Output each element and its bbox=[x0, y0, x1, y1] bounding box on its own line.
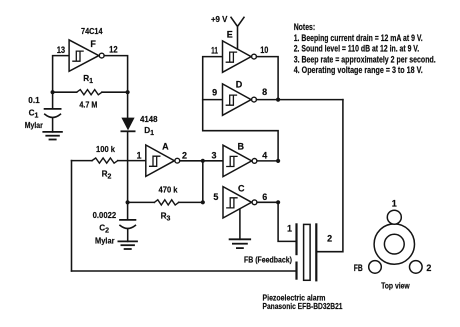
wire B output loop up and left to D/E inputs bbox=[203, 57, 278, 161]
svg-text:0.0022: 0.0022 bbox=[93, 211, 117, 220]
svg-text:C: C bbox=[238, 183, 245, 193]
top view: terminal 1 circle bbox=[387, 210, 401, 224]
inverter U1F 74C14 bbox=[69, 40, 99, 71]
svg-text:1: 1 bbox=[136, 151, 141, 161]
wire R3 right lead bbox=[179, 201, 203, 203]
node: junction A out / vertical to C input bbox=[201, 159, 205, 163]
ground under gate C bbox=[230, 238, 251, 240]
node: junction C2 / R3 / diode bbox=[126, 200, 130, 204]
resistor R3 bbox=[154, 200, 178, 205]
node: junction at C output corner bbox=[276, 200, 280, 204]
svg-text:10: 10 bbox=[260, 45, 268, 55]
capacitor C2 plates bbox=[120, 219, 135, 221]
node: junction at R1 right / pin12 vertical bbox=[126, 90, 130, 94]
wire feedback rail to FB electrode bbox=[72, 270, 297, 272]
wire gate B output (pin 4) bbox=[257, 160, 278, 162]
svg-text:F: F bbox=[90, 39, 96, 49]
svg-text:0.1: 0.1 bbox=[28, 96, 40, 105]
wire pin12 output of F: right then down bbox=[105, 56, 127, 93]
svg-text:Notes:: Notes: bbox=[294, 22, 316, 32]
svg-text:4148: 4148 bbox=[140, 115, 158, 124]
svg-text:2. Sound level = 110 dB at 12: 2. Sound level = 110 dB at 12 in. at 9 V… bbox=[294, 44, 420, 54]
wire R1 left lead bbox=[53, 91, 77, 93]
svg-text:Top view: Top view bbox=[381, 281, 410, 290]
wire feedback riser (left vertical) bbox=[71, 161, 73, 271]
wire vertical from A-out node down to C input row bbox=[202, 161, 204, 203]
top view: terminal 2 circle bbox=[410, 261, 423, 274]
svg-text:5: 5 bbox=[213, 192, 218, 202]
svg-text:Mylar: Mylar bbox=[95, 236, 115, 245]
wire R1 right lead bbox=[102, 91, 128, 93]
svg-text:2: 2 bbox=[327, 233, 332, 243]
wire pin13 input of F: left then down to node bbox=[53, 56, 70, 93]
piezo ceramic body bbox=[304, 224, 311, 280]
capacitor C1 plates bbox=[45, 108, 61, 110]
wire C output down then right to piezo pin 1 bbox=[278, 202, 296, 241]
svg-text:3. Beep rate = approximately 2: 3. Beep rate = approximately 2 per secon… bbox=[294, 54, 436, 64]
svg-text:1: 1 bbox=[392, 199, 397, 209]
diode D1 1N4148 (pointing down) bbox=[121, 118, 134, 131]
svg-text:Mylar: Mylar bbox=[25, 121, 44, 130]
inverter U1C bbox=[223, 187, 252, 218]
svg-text:B: B bbox=[237, 141, 244, 151]
capacitor C1 top stem bbox=[52, 92, 54, 108]
svg-text:100 k: 100 k bbox=[96, 145, 115, 154]
svg-text:4.7 M: 4.7 M bbox=[79, 101, 97, 110]
ground under C1 bbox=[43, 131, 62, 133]
svg-text:6: 6 bbox=[262, 192, 267, 202]
svg-text:2: 2 bbox=[426, 263, 431, 273]
svg-text:4. Operating voltage range = 3: 4. Operating voltage range = 3 to 18 V. bbox=[294, 65, 423, 75]
svg-text:12: 12 bbox=[109, 45, 118, 55]
inverter U1D bbox=[223, 84, 252, 115]
top view: piezo disc outer circle bbox=[374, 224, 414, 264]
piezo electrode FB bar bbox=[295, 263, 297, 279]
wire R2 right lead to gate A input (pin 1) bbox=[118, 160, 146, 162]
svg-text:74C14: 74C14 bbox=[81, 26, 103, 36]
svg-text:11: 11 bbox=[211, 45, 218, 55]
svg-text:E: E bbox=[227, 30, 233, 40]
svg-text:2: 2 bbox=[182, 150, 187, 160]
capacitor C1 bottom stem bbox=[52, 118, 54, 132]
piezo electrode pin 1 bar bbox=[295, 224, 297, 254]
capacitor C2 top stem bbox=[127, 202, 129, 219]
svg-text:+9 V: +9 V bbox=[211, 15, 228, 24]
inverter U1B bbox=[223, 145, 252, 176]
+9V supply arrow bbox=[231, 17, 244, 49]
wire tap to D input (pin 9) bbox=[203, 99, 223, 101]
wire gate A output (pin 2) to gate B input (pin 3) bbox=[180, 160, 223, 162]
node: junction at C1/R1/pin13 bbox=[51, 90, 55, 94]
svg-text:FB: FB bbox=[354, 263, 363, 273]
resistor R1 bbox=[77, 90, 102, 95]
wire R3 left lead bbox=[128, 201, 155, 203]
node: junction R3 right / C input bbox=[201, 200, 205, 204]
inverter U1A bbox=[146, 145, 175, 176]
wire gate C output (pin 6) bbox=[257, 201, 278, 203]
wire gate D output (pin 8) to rail bbox=[257, 99, 343, 101]
svg-text:FB (Feedback): FB (Feedback) bbox=[244, 256, 292, 265]
resistor R2 bbox=[92, 158, 118, 163]
wire gate E output (pin 10) right then down to D out node bbox=[257, 57, 278, 100]
svg-text:Panasonic EFB-BD32B21: Panasonic EFB-BD32B21 bbox=[263, 301, 343, 311]
svg-text:470 k: 470 k bbox=[159, 185, 178, 194]
ground stem from gate C bbox=[239, 209, 241, 239]
svg-text:1. Beeping current drain = 12: 1. Beeping current drain = 12 mA at 9 V. bbox=[294, 33, 423, 43]
svg-text:A: A bbox=[162, 142, 169, 152]
wire from diode down to C2 node (crosses pin1 wire, no dot) bbox=[127, 131, 129, 202]
node: junction D out / E out bbox=[276, 98, 280, 102]
svg-text:9: 9 bbox=[212, 87, 217, 97]
svg-text:4: 4 bbox=[262, 150, 267, 160]
capacitor C2 bottom stem bbox=[127, 229, 129, 241]
top view: terminal FB circle bbox=[369, 261, 382, 274]
wire R2 left lead bbox=[72, 160, 93, 162]
svg-text:D: D bbox=[236, 79, 243, 89]
svg-text:8: 8 bbox=[262, 87, 267, 97]
svg-text:3: 3 bbox=[211, 150, 216, 160]
svg-text:13: 13 bbox=[57, 45, 65, 55]
svg-text:1: 1 bbox=[287, 223, 292, 233]
ground under C2 bbox=[118, 240, 137, 242]
node: junction at B output corner bbox=[276, 159, 280, 163]
piezo electrode pin 2 bar bbox=[315, 224, 317, 280]
wire rail down to piezo pin 2 bbox=[316, 100, 343, 252]
wire from node down to diode D1 bbox=[127, 92, 129, 117]
top view: piezo disc inner circle bbox=[384, 234, 404, 254]
inverter U1E bbox=[223, 41, 252, 72]
